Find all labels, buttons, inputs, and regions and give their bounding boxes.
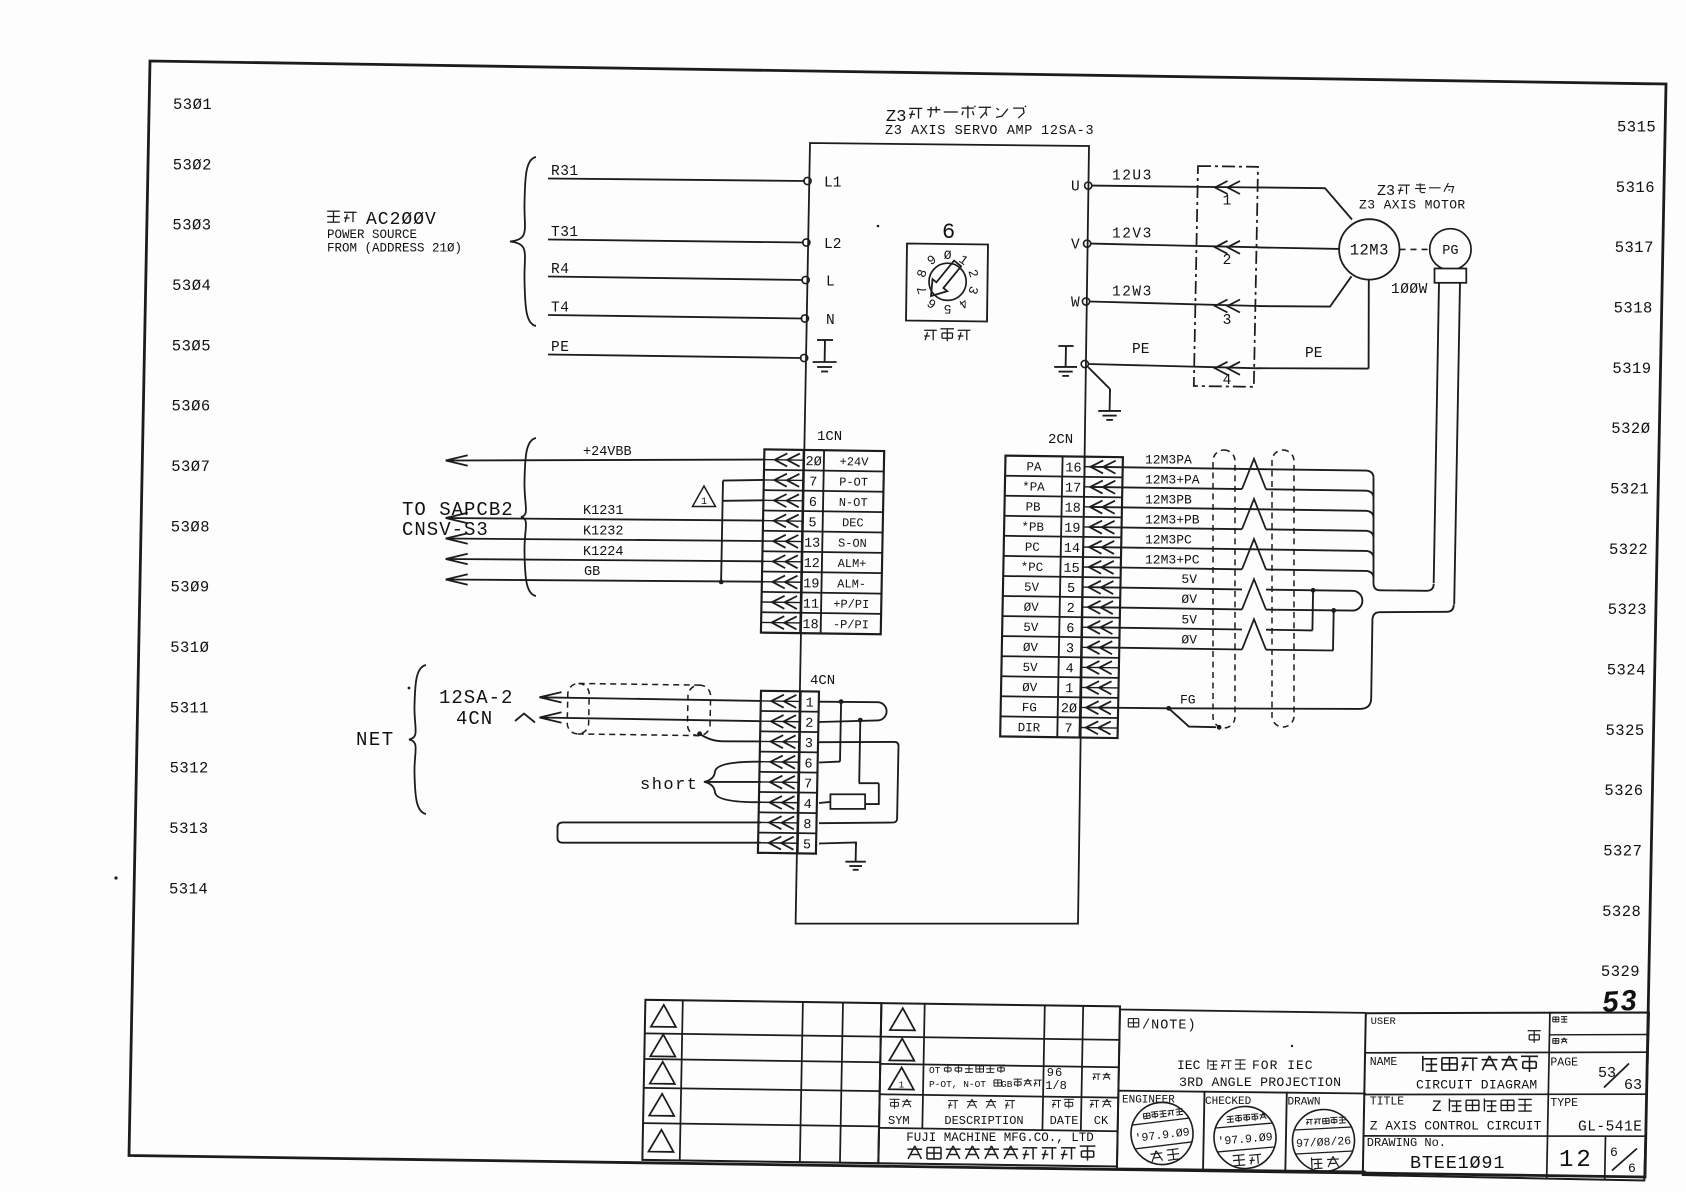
svg-text:R31: R31 — [551, 164, 579, 180]
svg-text:5: 5 — [803, 838, 811, 853]
title block outline — [1363, 1013, 1649, 1181]
checked stamp — [1211, 1104, 1278, 1171]
svg-text:TO SAPCB2: TO SAPCB2 — [402, 499, 514, 521]
twisted pair symbol 12M3PA — [1242, 459, 1266, 490]
svg-text:PB: PB — [1025, 500, 1041, 514]
svg-text:5V: 5V — [1181, 612, 1197, 627]
arrowhead GB — [446, 574, 468, 584]
rotary switch dial circle — [929, 263, 966, 300]
svg-text:BTEE1Ø91: BTEE1Ø91 — [1410, 1153, 1505, 1174]
revision history table (left) — [642, 1000, 881, 1163]
wire N-OT jumper — [723, 499, 764, 502]
PG cable left wire — [1434, 283, 1439, 583]
svg-text:5317: 5317 — [1615, 239, 1654, 257]
svg-text:PE: PE — [1132, 342, 1149, 358]
jumper 0V pin2 to pin3 — [1332, 610, 1335, 650]
svg-text:5327: 5327 — [1603, 843, 1642, 861]
svg-text:NAME: NAME — [1370, 1056, 1398, 1069]
svg-text:S-ON: S-ON — [838, 537, 867, 551]
wire 4CN pin3 to pin8 loop — [819, 742, 899, 823]
wire R4 to amp terminal — [548, 277, 803, 281]
connector 1CN table — [761, 449, 884, 634]
svg-text:PA: PA — [1026, 460, 1042, 474]
svg-text:L1: L1 — [824, 176, 841, 192]
wire PE to ground — [1088, 367, 1110, 389]
wire K1224 — [446, 559, 765, 561]
rotary switch box — [906, 244, 988, 322]
svg-text:18: 18 — [802, 618, 818, 633]
rotary switch arrow — [931, 261, 961, 296]
svg-text:GB: GB — [584, 565, 600, 580]
wire 12U3 to motor connector — [1092, 186, 1259, 188]
svg-text:SYM: SYM — [888, 1114, 910, 1128]
label class tiny1 — [1553, 1016, 1559, 1018]
svg-text:53Ø4: 53Ø4 — [172, 277, 211, 295]
svg-text:53Ø7: 53Ø7 — [171, 458, 210, 476]
svg-text:USER: USER — [1371, 1016, 1397, 1028]
twisted pair symbol 12M3PB — [1242, 499, 1266, 530]
arrowhead K1224 — [446, 554, 468, 564]
motor 12M3 circle — [1339, 219, 1399, 279]
svg-text:PC: PC — [1025, 541, 1040, 555]
svg-text:U: U — [1071, 180, 1080, 196]
svg-text:DEC: DEC — [842, 516, 864, 530]
svg-text:5311: 5311 — [170, 699, 209, 717]
svg-text:short: short — [640, 776, 699, 795]
wire 12V3 to motor connector — [1091, 244, 1259, 248]
arrowhead NET pin2 — [540, 712, 562, 722]
chassis ground left of PE terminal — [1065, 346, 1067, 367]
svg-text:12SA-3: 12SA-3 — [1041, 124, 1094, 139]
PG mounting box — [1435, 269, 1467, 283]
svg-text:5325: 5325 — [1606, 722, 1645, 740]
svg-text:DESCRIPTION: DESCRIPTION — [944, 1114, 1023, 1128]
svg-text:5315: 5315 — [1617, 119, 1656, 137]
svg-text:1: 1 — [805, 697, 813, 712]
svg-text:2Ø: 2Ø — [1061, 702, 1077, 717]
svg-text:53Ø2: 53Ø2 — [173, 156, 212, 174]
svg-text:DATE: DATE — [1050, 1114, 1079, 1128]
svg-text:532Ø: 532Ø — [1611, 420, 1650, 438]
svg-text:TYPE: TYPE — [1550, 1097, 1578, 1110]
wire K1232 — [446, 539, 765, 542]
engineer panel dividers — [1203, 1091, 1205, 1172]
svg-text:5329: 5329 — [1601, 963, 1640, 981]
svg-text:DRAWN: DRAWN — [1288, 1097, 1321, 1109]
twisted pair symbol 12M3PC — [1242, 539, 1266, 570]
svg-text:W: W — [1071, 296, 1080, 312]
motor connector pin 1 arrows — [1215, 181, 1228, 194]
terminal circle T31 — [803, 239, 810, 246]
label power source AC200V (Japanese) — [327, 210, 340, 212]
svg-text:L2: L2 — [824, 237, 841, 253]
svg-text:5V: 5V — [1024, 581, 1040, 595]
svg-text:5316: 5316 — [1616, 179, 1655, 197]
junction dot 5V — [1311, 588, 1316, 593]
svg-text:5323: 5323 — [1608, 601, 1647, 619]
svg-text:12M3: 12M3 — [1350, 242, 1389, 260]
title block horizontals — [1365, 1051, 1648, 1054]
svg-text:*PA: *PA — [1022, 480, 1045, 494]
junction dot pin2 — [858, 718, 863, 723]
wire pin6 stub — [754, 761, 762, 763]
svg-text:5V: 5V — [1181, 572, 1197, 587]
svg-text:DRAWING No.: DRAWING No. — [1367, 1136, 1446, 1150]
wire 4CN pin1-pin2 loop — [819, 702, 887, 722]
junction dot FG — [1166, 706, 1171, 711]
terminal circle W — [1082, 298, 1089, 305]
svg-text:53: 53 — [1601, 985, 1639, 1019]
svg-text:5328: 5328 — [1602, 903, 1641, 921]
wire 5V (pin 6) — [1090, 627, 1242, 629]
svg-text:P-OT, N-OT: P-OT, N-OT — [929, 1079, 986, 1090]
svg-text:L: L — [826, 275, 835, 291]
svg-text:FG: FG — [1180, 693, 1196, 708]
motor connector pin 2 arrows — [1215, 241, 1228, 254]
svg-text:K1232: K1232 — [583, 525, 624, 540]
svg-text:ALM-: ALM- — [837, 577, 866, 591]
svg-text:CK: CK — [1094, 1114, 1109, 1128]
warning triangle 1 — [693, 486, 716, 507]
motor connector pin 4 arrows — [1215, 362, 1228, 375]
junction dot on GB wire — [719, 580, 724, 585]
svg-text:DIR: DIR — [1018, 721, 1041, 735]
wire FG (pin 20) — [1090, 707, 1169, 710]
wire K1231 — [446, 518, 765, 521]
svg-text:TITLE: TITLE — [1370, 1096, 1405, 1109]
label note (Japanese)/NOTE) — [1128, 1018, 1138, 1020]
svg-text:T4: T4 — [551, 301, 569, 317]
terminal circle V — [1084, 240, 1091, 247]
svg-text:CNSV-S3: CNSV-S3 — [402, 519, 489, 541]
svg-text:6: 6 — [942, 220, 955, 245]
header DATE — [1052, 1099, 1061, 1101]
wire PE to motor connector — [1088, 364, 1259, 368]
short loop pins 8-5 — [558, 822, 762, 842]
wire GB — [446, 580, 765, 582]
svg-text:12: 12 — [803, 557, 819, 572]
svg-text:FUJI MACHINE MFG.CO., LTD: FUJI MACHINE MFG.CO., LTD — [906, 1131, 1094, 1145]
resistor R — [830, 794, 865, 809]
svg-text:5V: 5V — [1023, 621, 1039, 635]
note box outline — [1120, 1010, 1366, 1013]
engineer stamp — [1127, 1099, 1196, 1168]
svg-text:63: 63 — [1624, 1077, 1642, 1094]
svg-text:5322: 5322 — [1609, 541, 1648, 559]
svg-text:7: 7 — [1064, 722, 1072, 737]
svg-text:K1224: K1224 — [583, 545, 624, 560]
svg-text:15: 15 — [1063, 562, 1079, 577]
wire 4CN pin6 right stub — [819, 761, 840, 764]
svg-text:5312: 5312 — [170, 760, 209, 778]
svg-text:5313: 5313 — [169, 820, 208, 838]
title name (Japanese) circuit diagram — [1422, 1056, 1424, 1071]
svg-text:2: 2 — [805, 717, 813, 732]
encoder PG circle — [1430, 229, 1471, 270]
svg-text:5: 5 — [808, 516, 816, 531]
svg-text:GL-541E: GL-541E — [1578, 1120, 1642, 1136]
wire pin4 stub — [754, 801, 762, 803]
svg-text:2: 2 — [1067, 602, 1075, 617]
svg-text:5321: 5321 — [1610, 481, 1649, 499]
terminal circle R4 — [802, 276, 809, 283]
svg-text:5314: 5314 — [169, 880, 208, 898]
wire PE to amp terminal — [548, 355, 802, 359]
junction dot 0V — [1331, 608, 1336, 613]
svg-text:4: 4 — [1065, 662, 1073, 677]
encoder cable shield (dashed tubes) — [1213, 450, 1294, 728]
wire 0V (pin 2) — [1090, 607, 1242, 609]
svg-text:FROM (ADDRESS 21Ø): FROM (ADDRESS 21Ø) — [327, 242, 462, 256]
svg-text:2Ø: 2Ø — [805, 455, 821, 470]
svg-text:ALM+: ALM+ — [838, 557, 867, 571]
svg-text:5318: 5318 — [1614, 300, 1653, 318]
wire NET pin2 — [540, 718, 762, 722]
svg-text:17: 17 — [1065, 482, 1081, 497]
svg-text:19: 19 — [803, 577, 819, 592]
svg-text:5326: 5326 — [1604, 782, 1643, 800]
svg-text:7: 7 — [809, 476, 817, 491]
svg-text:ØV: ØV — [1023, 641, 1039, 655]
jumper 4CN pin1 to pin6 — [840, 702, 841, 762]
wire P-OT jumper — [723, 479, 764, 482]
motor connector pin 3 arrows — [1215, 300, 1228, 313]
svg-text:4CN: 4CN — [456, 708, 493, 730]
arrowhead +24VBB — [446, 455, 468, 465]
wire 12M3+PC (pin 15) — [1090, 567, 1242, 569]
svg-text:PG: PG — [1442, 244, 1458, 259]
svg-text:6: 6 — [1066, 622, 1074, 637]
arrowhead K1231 — [446, 513, 468, 523]
svg-text:-P/PI: -P/PI — [833, 618, 869, 632]
wire 12M3+PB (pin 19) — [1090, 527, 1242, 529]
wire 12M3PB (pin 18) — [1090, 507, 1374, 518]
svg-text:GB: GB — [1001, 1079, 1013, 1090]
wire 12M3PC (pin 14) — [1090, 547, 1374, 558]
twisted pair symbol 5V/0V A — [1242, 579, 1266, 609]
label class tiny2 — [1553, 1038, 1559, 1040]
wire 12M3PA (pin 16) — [1090, 467, 1374, 478]
svg-text:12V3: 12V3 — [1112, 227, 1153, 243]
svg-text:53Ø3: 53Ø3 — [172, 217, 211, 235]
svg-text:NET: NET — [356, 729, 395, 751]
encoder cable trunk to PG left wire — [1374, 478, 1434, 591]
svg-text:12M3+PA: 12M3+PA — [1145, 472, 1200, 487]
svg-text:12SA-2: 12SA-2 — [439, 687, 513, 709]
jumper vertical P-OT/N-OT to GB — [721, 481, 723, 582]
svg-text:Z AXIS CONTROL CIRCUIT: Z AXIS CONTROL CIRCUIT — [1370, 1119, 1542, 1134]
svg-text:T31: T31 — [551, 225, 579, 241]
wire 0V (pin 3) — [1090, 647, 1242, 649]
wire T4 to amp terminal — [548, 315, 802, 319]
signal ground 4CN pin5 — [855, 843, 857, 862]
wire 4CN pin7 level stub — [859, 782, 879, 784]
svg-text:14: 14 — [1064, 542, 1080, 557]
PG cable right wire — [1454, 283, 1460, 605]
svg-text:4: 4 — [804, 798, 812, 813]
jumper 5V pin5 to pin6 — [1311, 590, 1314, 630]
svg-text:CIRCUIT DIAGRAM: CIRCUIT DIAGRAM — [1416, 1078, 1538, 1093]
wire resistor to pin7 level — [865, 783, 879, 804]
label dono (Japanese) — [1528, 1030, 1541, 1032]
svg-text:1: 1 — [1223, 194, 1232, 210]
terminal circle U — [1085, 182, 1092, 189]
svg-text:3: 3 — [805, 737, 813, 752]
svg-text:FG: FG — [1022, 701, 1037, 715]
svg-text:12M3PA: 12M3PA — [1145, 452, 1192, 467]
NET shield drain dot — [697, 731, 702, 736]
svg-text:13: 13 — [804, 537, 820, 552]
drawn stamp — [1291, 1108, 1356, 1173]
wire R31 to amp terminal — [548, 179, 805, 182]
header SYM (Japanese+SYM) — [890, 1098, 900, 1100]
svg-text:53Ø9: 53Ø9 — [171, 579, 210, 597]
svg-text:6: 6 — [1610, 1145, 1618, 1160]
twisted pair symbol 5V/0V B — [1242, 619, 1266, 649]
svg-text:18: 18 — [1064, 502, 1080, 517]
svg-text:12M3+PB: 12M3+PB — [1145, 513, 1200, 528]
label axis setting (Japanese) — [924, 329, 937, 331]
servo amp 12SA-3 outline — [796, 143, 1089, 924]
svg-text:PAGE: PAGE — [1550, 1057, 1578, 1070]
svg-text:16: 16 — [1065, 461, 1081, 476]
svg-text:11: 11 — [803, 598, 819, 613]
wire 12M3+PA (pin 17) — [1090, 487, 1242, 489]
arrowhead K1232 — [446, 533, 468, 543]
svg-text:7: 7 — [804, 778, 812, 793]
wire connector pin3 to motor — [1258, 276, 1352, 306]
svg-text:P-OT: P-OT — [839, 475, 868, 489]
svg-text:96: 96 — [1047, 1066, 1063, 1080]
terminal circle T4 — [801, 315, 808, 322]
svg-text:1: 1 — [1065, 682, 1073, 697]
terminal circle R31 — [804, 177, 811, 184]
svg-text:*PB: *PB — [1021, 521, 1044, 535]
svg-text:ØV: ØV — [1181, 632, 1197, 647]
svg-text:1: 1 — [899, 1080, 905, 1090]
svg-text:53Ø5: 53Ø5 — [172, 337, 211, 355]
svg-text:+24V: +24V — [839, 455, 869, 469]
svg-text:1: 1 — [701, 497, 707, 508]
wire NET pin1 — [540, 697, 762, 701]
svg-text:3RD ANGLE PROJECTION: 3RD ANGLE PROJECTION — [1179, 1075, 1341, 1090]
chassis ground below PE wire — [1109, 390, 1111, 411]
wire 12W3 to motor connector — [1090, 302, 1259, 307]
svg-text:3: 3 — [1066, 642, 1074, 657]
svg-text:1/8: 1/8 — [1045, 1079, 1067, 1093]
wire 4CN pin4 to resistor — [819, 802, 830, 803]
wire +24VBB — [446, 459, 765, 462]
svg-text:FOR IEC: FOR IEC — [1252, 1058, 1314, 1073]
motor cable connector box (dash-dot) — [1194, 166, 1258, 387]
svg-text:5: 5 — [1067, 582, 1075, 597]
connector 4CN table — [758, 691, 819, 854]
svg-text:PE: PE — [1305, 346, 1322, 362]
terminal circle PE — [1081, 360, 1088, 367]
svg-text:8: 8 — [803, 818, 811, 833]
power source brace — [510, 157, 536, 326]
svg-text:53Ø1: 53Ø1 — [173, 96, 212, 114]
revision record table (right) — [878, 1003, 1120, 1166]
svg-text:POWER SOURCE: POWER SOURCE — [327, 228, 417, 242]
svg-text:12: 12 — [1559, 1147, 1594, 1174]
svg-text:5: 5 — [944, 301, 952, 316]
wire connector pin2 to motor — [1258, 247, 1339, 249]
svg-text:12M3PC: 12M3PC — [1145, 533, 1192, 548]
wire PE connector pin4 to motor — [1258, 367, 1369, 369]
Fuji Machine company name (Japanese) — [908, 1146, 915, 1159]
svg-text:1ØØW: 1ØØW — [1391, 282, 1428, 298]
svg-text:19: 19 — [1064, 522, 1080, 537]
wire NET shield to pin3 — [700, 734, 761, 742]
header DESCRIPTION — [948, 1100, 958, 1102]
svg-text:12U3: 12U3 — [1112, 169, 1153, 185]
svg-text:ØV: ØV — [1024, 601, 1040, 615]
svg-text:ØV: ØV — [1181, 592, 1197, 607]
NET brace — [409, 665, 426, 814]
svg-text:N: N — [826, 313, 835, 329]
svg-text:IEC: IEC — [1177, 1058, 1201, 1073]
svg-text:53Ø8: 53Ø8 — [171, 518, 210, 536]
svg-text:*PC: *PC — [1021, 561, 1044, 575]
jumper 4CN pin2 to pin7 — [859, 720, 860, 782]
svg-text:53Ø6: 53Ø6 — [172, 398, 211, 416]
SAPCB2 brace — [521, 438, 536, 596]
svg-text:Z3 AXIS SERVO AMP: Z3 AXIS SERVO AMP — [885, 124, 1033, 139]
svg-text:5319: 5319 — [1612, 360, 1651, 378]
title block sub lines — [1550, 1034, 1649, 1036]
scan speck — [114, 876, 117, 879]
FG shield drain wire — [1169, 708, 1216, 727]
svg-text:N-OT: N-OT — [839, 496, 868, 510]
svg-text:12M3+PC: 12M3+PC — [1145, 553, 1200, 568]
svg-text:2: 2 — [1223, 253, 1232, 269]
svg-text:K1231: K1231 — [583, 504, 624, 519]
svg-text:6: 6 — [1628, 1161, 1636, 1176]
svg-text:12W3: 12W3 — [1112, 285, 1153, 301]
svg-text:+P/PI: +P/PI — [833, 597, 869, 611]
svg-text:ØV: ØV — [1022, 681, 1038, 695]
junction dot pin1 — [839, 699, 844, 704]
chassis ground at PE terminal — [824, 340, 826, 362]
wire connector pin1 to motor — [1258, 187, 1352, 219]
dashed link motor to PG — [1400, 248, 1430, 250]
connector 2CN table — [1000, 456, 1123, 738]
svg-text:531Ø: 531Ø — [170, 639, 209, 657]
svg-text:5V: 5V — [1022, 661, 1038, 675]
svg-text:5324: 5324 — [1607, 662, 1646, 680]
header CK — [1090, 1099, 1099, 1101]
svg-text:1CN: 1CN — [817, 429, 842, 445]
svg-text:Z: Z — [1432, 1098, 1442, 1116]
svg-text:6: 6 — [809, 496, 817, 511]
shield drain dot — [1217, 725, 1222, 730]
svg-text:OT: OT — [929, 1065, 941, 1076]
svg-text:+24VBB: +24VBB — [583, 445, 632, 460]
svg-text:6: 6 — [804, 757, 812, 772]
wire T31 to amp terminal — [548, 240, 804, 243]
short brace pins 6-7-4 — [704, 762, 754, 803]
svg-text:V: V — [1071, 238, 1080, 254]
wire 4CN pin5 to ground — [819, 843, 856, 846]
svg-text:PE: PE — [551, 340, 569, 356]
svg-text:4CN: 4CN — [810, 673, 835, 689]
svg-text:Ø: Ø — [944, 248, 952, 263]
svg-text:AC2ØØV: AC2ØØV — [366, 210, 437, 230]
wire 5V (pin 5) — [1090, 587, 1242, 589]
terminal circle PE — [801, 354, 808, 361]
svg-text:2CN: 2CN — [1048, 432, 1073, 448]
